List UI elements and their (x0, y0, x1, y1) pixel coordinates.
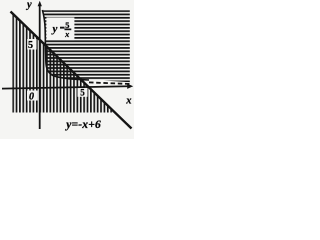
line y=-x+6 (11, 12, 132, 129)
svg-text:0: 0 (29, 91, 34, 102)
svg-text:y=-x+6: y=-x+6 (64, 119, 101, 131)
background (0, 0, 134, 139)
x-axis (2, 86, 130, 88)
hyperbola dashed tail (89, 82, 131, 84)
svg-text:x: x (125, 96, 131, 107)
horizontal hatch region (y > 5/x) (42, 10, 129, 82)
svg-text:5: 5 (28, 40, 33, 51)
svg-text:5: 5 (80, 87, 85, 97)
label box y=5/x (46, 17, 74, 40)
x-axis arrow (127, 84, 133, 89)
svg-text:y: y (25, 0, 32, 11)
svg-text:y: y (51, 23, 58, 35)
y-axis (39, 4, 41, 129)
y-axis arrow (38, 1, 42, 7)
hyperbola y=5/x solid part (42, 10, 89, 80)
white patch + 0 at origin (27, 91, 38, 101)
svg-text:x: x (64, 30, 69, 39)
white patch + 5 on x-axis (78, 88, 88, 97)
vertical hatch region (y < -x+6) (12, 13, 115, 112)
white patch + 5 on y-axis (27, 39, 36, 50)
